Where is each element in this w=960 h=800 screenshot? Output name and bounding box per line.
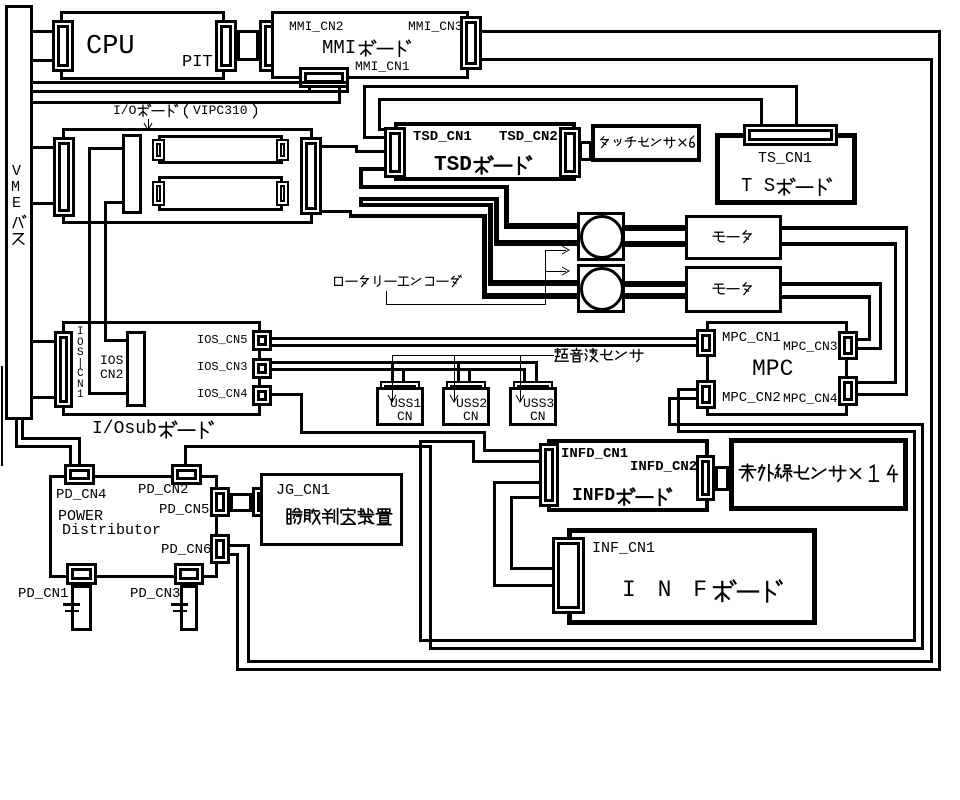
wire bus to MMI_CN1 pin2 xyxy=(33,101,341,104)
wire encoder1 to motor1 upper xyxy=(625,225,685,231)
TSD_CN1 connector xyxy=(384,127,406,178)
MPC_CN3 connector xyxy=(838,331,858,360)
USS1 box xyxy=(376,387,424,426)
POWER distributor box xyxy=(49,475,218,578)
USS2 label xyxy=(456,397,487,411)
PD_CN6 label xyxy=(161,543,211,558)
ultrasonic pointer line xyxy=(392,355,554,356)
encoder arrow 1 xyxy=(545,250,566,251)
INFD board label INFDボード xyxy=(572,487,615,506)
PIT label xyxy=(182,54,213,72)
ultrasonic arrow 2 xyxy=(454,355,455,402)
CPU left connector xyxy=(52,20,74,72)
MMI board box xyxy=(271,11,469,79)
wire I/O inner connector down to IOS CN2 lower xyxy=(104,201,122,204)
IOS CN1 vertical label xyxy=(77,327,84,339)
USS1 connector xyxy=(380,381,420,393)
PD_CN1 battery bars xyxy=(63,603,80,606)
IOS_CN3 connector xyxy=(252,358,272,379)
TSD_CN2 label xyxy=(499,130,558,145)
link bar CPU-MMI xyxy=(237,30,259,61)
INF board label ＩＮＦボード xyxy=(622,578,711,602)
IOS sub board box xyxy=(62,321,261,416)
USS3 connector xyxy=(513,381,553,393)
Distributor label xyxy=(62,523,161,539)
TSD_CN1 label xyxy=(413,130,472,145)
wire motor1 to MPC_CN4 inner xyxy=(782,242,897,246)
IR sensor box 赤外線センサ×14 xyxy=(729,438,908,511)
I/Osub board label xyxy=(92,420,157,439)
wire encoder2 to motor2 upper xyxy=(625,281,685,287)
MMI board left connector xyxy=(259,20,281,72)
IOS CN2 tall connector xyxy=(126,331,146,407)
POWER label xyxy=(58,509,103,525)
PD_CN1 battery tube xyxy=(71,585,92,631)
JG_CN1 label xyxy=(276,483,330,499)
wire bus to I/O connector stub1 xyxy=(33,146,53,149)
wire bus loop below CPU xyxy=(33,81,349,84)
IOS_CN5 label xyxy=(197,334,247,347)
wire PD_CN6 to MMI_CN3 frame lower xyxy=(230,553,239,556)
PD_CN3 battery bars xyxy=(171,603,188,606)
touch sensor box タッチセンサ×6 xyxy=(591,124,701,162)
USS3 label xyxy=(523,397,554,411)
wire I/O right connector to TSD_CN1 jog xyxy=(322,145,358,148)
motor 2 box xyxy=(685,266,782,313)
JG box 勝敗判定装置 xyxy=(260,473,403,546)
INFD board box xyxy=(547,439,709,512)
wire bus to CPU connector stub1 xyxy=(33,30,52,33)
MMI_CN3 connector xyxy=(460,16,482,70)
PD_CN3 connector xyxy=(174,563,204,585)
link bar TSD_CN2 to touch sensor box xyxy=(579,141,592,161)
wire IOS_CN5 to MPC_CN1 pin2 xyxy=(272,344,696,347)
INFD_CN1 connector xyxy=(539,443,559,507)
IOS CN2 label xyxy=(100,354,123,368)
PD_CN4 connector xyxy=(64,464,95,485)
PD_CN6 connector xyxy=(210,534,230,564)
wire PD_CN6 to MMI_CN3 frame upper xyxy=(230,544,250,547)
sub-board1 left end connector xyxy=(152,139,165,161)
TS_CN1 label xyxy=(758,151,812,167)
MPC_CN2 label xyxy=(722,391,781,406)
sub-board2 right end connector xyxy=(276,181,289,206)
stray thin line left edge xyxy=(1,366,3,466)
wire U lower leg to encoder2 upper xyxy=(488,203,493,280)
wire I/O right connector bottom to encoder2 lower xyxy=(322,210,352,213)
I/O board right connector xyxy=(300,137,322,215)
I/O board VIPC310 box xyxy=(62,128,313,224)
wire bus bottom to PD_CN4 outer xyxy=(15,420,18,448)
I/O sub-board 2 xyxy=(158,176,283,211)
IOS_CN3 label xyxy=(197,361,247,374)
INFD_CN2 connector xyxy=(696,455,715,501)
USS2 connector xyxy=(446,381,486,393)
USS3 box xyxy=(509,387,557,426)
INF_CN1 label xyxy=(592,541,655,557)
USS3 stub wires xyxy=(523,368,526,382)
wire U-turn TSD area to encoder1 lower xyxy=(359,197,497,201)
MPC_CN3 label xyxy=(783,340,838,354)
TSD board box xyxy=(394,122,576,181)
wire bus to IOS stub2 xyxy=(33,396,54,399)
wire INFD_CN1 to INF_CN1 outer xyxy=(493,481,539,484)
MMI_CN3 label xyxy=(408,20,463,34)
PD_CN1 label xyxy=(18,587,68,602)
VME bus vertical label VMEバス xyxy=(12,164,21,180)
USS1 stub wires xyxy=(391,361,394,382)
rotary encoder 1 circle xyxy=(580,215,624,259)
CPU board box xyxy=(60,11,225,80)
TS board box xyxy=(715,133,857,205)
I/O board left connector xyxy=(53,137,75,217)
wire bus to I/O connector stub2 xyxy=(33,202,53,205)
CPU label xyxy=(86,33,135,61)
wire encoder1 to motor1 lower xyxy=(625,241,685,247)
MPC_CN1 label xyxy=(722,331,781,346)
TS_CN1 connector xyxy=(743,124,838,146)
VME bus bar xyxy=(5,5,33,420)
wire encoder2 to motor2 lower xyxy=(625,293,685,299)
rotary encoder pointer line xyxy=(386,291,387,305)
PD_CN4 label xyxy=(56,488,106,503)
I/O board label arrow xyxy=(148,119,149,130)
wire MPC_CN2 upper to INFD loop xyxy=(679,388,696,391)
INFD_CN1 label xyxy=(561,447,628,462)
wire TSD-TS lower B xyxy=(380,98,763,101)
wire bus bottom to PD_CN4 inner xyxy=(21,420,24,440)
PD_CN1 connector xyxy=(66,563,97,585)
JG_CN1 connector xyxy=(252,487,271,517)
wire bus to MMI_CN1 pin1 xyxy=(33,90,311,93)
IOS_CN1 connector xyxy=(54,331,73,408)
wire motor2 to MPC_CN3 inner xyxy=(782,295,871,299)
link bar INFD_CN2 to IR sensor box xyxy=(715,466,729,491)
TSD board label TSDボード xyxy=(434,155,472,177)
motor 1 box xyxy=(685,215,782,260)
MMI board label MMIボード xyxy=(322,39,356,59)
INF_CN1 connector xyxy=(552,537,585,614)
sub-board2 left end connector xyxy=(152,181,165,206)
MPC box xyxy=(706,321,848,416)
MMI_CN2 label xyxy=(289,20,344,34)
PD_CN2 connector xyxy=(171,464,202,485)
TSD_CN2 connector xyxy=(559,127,581,178)
I/O board label I/Oボード(VIPC310) xyxy=(113,104,136,118)
MPC_CN2 connector xyxy=(696,380,716,409)
wire INFD_CN1 to INF_CN1 inner xyxy=(510,496,539,499)
MPC_CN4 connector xyxy=(838,376,858,406)
PD_CN3 battery tube xyxy=(180,585,198,631)
wire bus to IOS stub1 xyxy=(33,340,54,343)
PD_CN5 connector xyxy=(210,487,230,517)
MMI_CN1 connector xyxy=(299,67,349,88)
USS2 box xyxy=(442,387,490,426)
wire TSD_CN1 pin y168 to encoder1 upper xyxy=(359,167,384,171)
wire IOS_CN3 to USS upper xyxy=(272,361,538,364)
rotary encoder 2 box xyxy=(577,264,625,313)
INFD_CN2 label xyxy=(630,460,697,475)
IOS_CN5 connector xyxy=(252,330,272,351)
wire MPC_CN2 lower to PD_CN2 loop xyxy=(668,397,696,400)
I/O board inner tall connector xyxy=(122,134,142,214)
link bar PD_CN5 to JG_CN1 xyxy=(230,493,252,512)
wire IOS_CN3 to USS lower xyxy=(272,368,526,371)
MPC label xyxy=(752,357,793,381)
encoder arrow 2 xyxy=(545,271,566,272)
ultrasonic arrow 1 xyxy=(392,355,393,402)
MMI_CN1 label xyxy=(355,60,410,74)
wire I/O inner connector down to IOS CN2 upper xyxy=(88,147,122,150)
TS board label ＴＳボード xyxy=(741,177,775,197)
MPC_CN1 connector xyxy=(696,329,716,357)
wire bus to CPU connector stub2 xyxy=(33,59,52,62)
rotary encoder 1 box xyxy=(577,212,625,261)
USS1 label xyxy=(390,397,421,411)
wire MMI_CN3 to right frame second xyxy=(482,58,933,61)
rotary encoder 2 circle xyxy=(580,267,624,311)
PD_CN5 label xyxy=(159,503,209,518)
INF board box xyxy=(567,528,817,625)
MPC_CN4 label xyxy=(783,392,838,406)
wire IOS_CN4 to INFD_CN1 xyxy=(272,393,302,396)
USS2 stub wires xyxy=(457,361,460,382)
PD_CN3 label xyxy=(130,587,180,602)
CPU right connector to PIT xyxy=(215,20,237,72)
wire MMI_CN3 to right frame top xyxy=(482,30,941,33)
I/O sub-board 1 xyxy=(158,135,283,164)
sub-board1 right end connector xyxy=(276,139,289,161)
PD_CN2 label xyxy=(138,483,188,498)
wire IOS_CN5 to MPC_CN1 pin1 xyxy=(272,337,696,340)
wire motor1 to MPC_CN4 outer xyxy=(782,226,908,230)
IOS_CN4 label xyxy=(197,388,247,401)
ultrasonic arrow 3 xyxy=(520,355,521,402)
IOS_CN4 connector xyxy=(252,385,272,406)
wire TSD-TS upper A xyxy=(365,85,798,88)
wire motor2 to MPC_CN3 outer xyxy=(782,282,882,286)
